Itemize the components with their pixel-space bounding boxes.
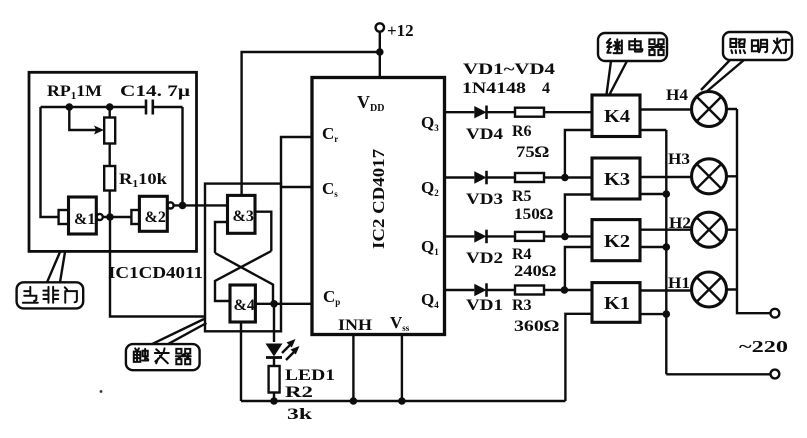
terminal mains upper (771, 309, 780, 318)
resistor R5 (515, 173, 544, 182)
relay K1 (592, 283, 640, 323)
svg-text:INH: INH (338, 317, 373, 334)
wire R4 to K2 (544, 235, 592, 237)
wire wiper branch (69, 107, 98, 130)
wire Q2 row (445, 176, 475, 178)
resistor R2 (269, 366, 280, 393)
node &2 output junction (179, 202, 187, 210)
char men (nand) (65, 287, 77, 302)
relay K2 (592, 220, 640, 261)
svg-text:H4: H4 (666, 87, 688, 104)
wire +12 to IC2 VDD (379, 52, 381, 78)
svg-text:&4: &4 (234, 297, 255, 314)
node pot top branch (106, 103, 114, 111)
svg-text:IC1CD4011: IC1CD4011 (108, 263, 203, 282)
svg-text:C14. 7μ: C14. 7μ (120, 83, 190, 100)
svg-text:R4: R4 (512, 246, 532, 263)
char fei (nand) (43, 287, 58, 303)
wire &1 output to &2 input (103, 216, 132, 218)
callout relay label box (598, 33, 667, 61)
node bus K1 junction (663, 310, 671, 318)
wire junction down to LED (273, 304, 275, 342)
node R2 rail junction (270, 397, 278, 405)
svg-text:3k: 3k (287, 406, 312, 423)
nand gate &2 input stub (131, 210, 139, 224)
stray printing dot (100, 390, 103, 393)
char fa (trigger) (155, 348, 169, 363)
nand gate &2 (139, 196, 167, 231)
svg-text:&1: &1 (74, 211, 95, 228)
char zhao (lamp) (730, 39, 745, 53)
svg-text:1N4148: 1N4148 (462, 80, 526, 97)
node bus K3 junction (663, 190, 671, 198)
char yu (nand) (23, 287, 38, 303)
wire pot bottom to R1 (108, 144, 110, 167)
svg-text:IC2 CD4017: IC2 CD4017 (369, 148, 388, 249)
svg-text:75Ω: 75Ω (516, 144, 549, 161)
wire feedback down to &2 output (181, 107, 183, 205)
wire oscillator top net (41, 106, 147, 108)
svg-text:H2: H2 (669, 215, 691, 232)
nand gate &1 input stub (59, 210, 69, 224)
node INH rail junction (350, 397, 358, 405)
nand gate &1 (69, 197, 97, 234)
wire Q3 row (445, 111, 475, 113)
svg-text:VD1~VD4: VD1~VD4 (463, 61, 555, 78)
wire bus to mains terminal lower (666, 373, 770, 375)
char qi (relay) (649, 39, 664, 55)
lamp bus stubs (727, 109, 738, 290)
wire &3 output right (255, 212, 271, 251)
svg-text:240Ω: 240Ω (514, 263, 556, 280)
wire K3 lower-left to row3 (565, 195, 592, 237)
wire INH to rail (352, 335, 354, 402)
wire R2 to rail (273, 393, 275, 402)
nand gate &3 (228, 195, 256, 233)
wire R6 to K4 (544, 111, 592, 113)
char dian (relay) (629, 39, 642, 52)
lamp H4 (692, 92, 727, 127)
ground rail (241, 400, 565, 402)
IC1 oscillator outer box (29, 72, 197, 251)
wire K1 lower-right to bus (640, 313, 666, 315)
wire &2 output to &3 (174, 204, 228, 206)
char ji (relay) (607, 39, 622, 53)
svg-text:+12: +12 (387, 21, 414, 40)
wire K4 lower-right to contact bus (640, 129, 666, 131)
resistor R6 (515, 108, 544, 117)
+12 supply terminal (376, 23, 384, 31)
wire Q1 row (445, 235, 475, 237)
wire K2 lower-left to row4 (565, 247, 592, 290)
terminal mains lower (771, 370, 780, 379)
wire +12 terminal to junction (379, 32, 381, 52)
callout nand label box (17, 282, 84, 308)
svg-text:R110k: R110k (119, 171, 167, 190)
svg-text:~220: ~220 (739, 337, 788, 356)
callout nand pointer (47, 252, 65, 282)
wire K1 to lamp H1 (640, 289, 692, 291)
svg-text:VD2: VD2 (466, 250, 503, 267)
svg-text:K1: K1 (604, 293, 630, 313)
nand gate &2 output bubble (167, 202, 173, 208)
char chu (trigger) (134, 348, 148, 361)
wire VD2 to R4 (487, 235, 516, 237)
lamp bus vertical (737, 109, 770, 313)
wire cross diagonal A (&4 out to &3 in) (215, 253, 273, 304)
svg-text:R3: R3 (512, 297, 532, 314)
node row4 junction (561, 286, 569, 294)
svg-text:&3: &3 (233, 208, 254, 225)
wire &4 bottom to ground rail (240, 322, 242, 401)
wiper arrowhead (94, 126, 104, 135)
relay K3 (592, 158, 640, 199)
LED1 cathode bar (266, 356, 282, 359)
wire VD3 to R5 (487, 176, 516, 178)
node pot wiper branch (66, 103, 74, 111)
wire K1 lower-left to rail (565, 314, 592, 401)
LED1 emission arrow 2 (286, 349, 297, 360)
svg-text:LED1: LED1 (285, 367, 335, 384)
wire R3 to K1 (544, 289, 592, 291)
wire K4 to lamp H4 (640, 108, 692, 110)
wire &3 left to cross-couple (215, 222, 228, 253)
wire gate node down to trigger (110, 217, 206, 317)
resistor R3 (515, 286, 544, 295)
nand gate &1 output bubble (97, 214, 103, 220)
wire Q4 row (445, 289, 475, 291)
wire VD4 to R6 (487, 111, 516, 113)
callout lamp pointer (701, 60, 744, 93)
svg-text:K2: K2 (604, 231, 630, 251)
LED1 emission arrow 1 (282, 342, 293, 353)
contact bus vertical (665, 130, 667, 374)
LED1 diode triangle (266, 344, 283, 357)
svg-text:H3: H3 (668, 151, 690, 168)
diode VD3 (474, 171, 486, 183)
wire pot top stub (108, 107, 110, 118)
char ming (lamp) (752, 40, 767, 52)
svg-text:VD4: VD4 (466, 126, 503, 143)
node bus K2 junction (663, 243, 671, 251)
wire K4 lower-left to row2 (565, 130, 592, 178)
wire +12 rail to gate &3 top (242, 52, 380, 195)
svg-text:4: 4 (542, 80, 550, 97)
svg-text:H1: H1 (668, 275, 690, 292)
relay K4 (592, 95, 640, 137)
callout trigger label box (126, 344, 200, 370)
node row3 junction (561, 233, 569, 241)
callout trigger pointer (152, 319, 207, 344)
wire LED to R2 (273, 358, 275, 367)
callout relay pointer (607, 61, 628, 95)
wire Cr pin loop to Cs (281, 137, 312, 187)
wire VD1 to R3 (487, 289, 516, 291)
svg-text:360Ω: 360Ω (514, 318, 559, 335)
wire left feedback loop (41, 107, 59, 217)
capacitor C1 (146, 100, 153, 115)
op IC2 CD4017 box (312, 78, 445, 335)
node +12 junction (376, 48, 384, 56)
svg-text:R6: R6 (512, 123, 532, 140)
wire K2 lower-right to bus (640, 246, 666, 248)
lamp H1 (692, 272, 727, 307)
svg-text:150Ω: 150Ω (514, 206, 553, 223)
lamp H3 (692, 159, 727, 194)
nand gate &4 (230, 285, 255, 322)
wire K3 lower-right to bus (640, 193, 666, 195)
wire K3 to lamp H3 (640, 176, 692, 178)
resistor R4 (515, 232, 544, 241)
lamp H2 (692, 212, 727, 247)
node Vss rail junction (398, 397, 406, 405)
node R1 junction (106, 213, 114, 221)
svg-text:&2: &2 (145, 209, 166, 226)
node &4 output junction (270, 300, 278, 308)
diode VD4 (474, 106, 486, 118)
svg-text:VD1: VD1 (466, 297, 503, 314)
char deng (lamp) (773, 38, 790, 53)
wire cross diagonal B (&3 out to &4 in) (215, 251, 271, 301)
svg-text:K4: K4 (604, 106, 630, 126)
svg-text:K3: K3 (604, 169, 630, 189)
diode VD2 (474, 230, 486, 242)
wire K2 to lamp H2 (640, 228, 692, 230)
node row2 junction (561, 174, 569, 182)
wire R1 bottom to gate node (108, 191, 110, 218)
wire R5 to K3 (544, 176, 592, 178)
callout lamp label box (723, 32, 792, 60)
potentiometer RP1 (104, 118, 115, 144)
svg-text:R2: R2 (285, 384, 313, 401)
svg-text:VD3: VD3 (466, 191, 503, 208)
diode VD1 (474, 284, 486, 296)
trigger annotation box (205, 184, 281, 332)
wire Vss to rail (401, 335, 403, 402)
char qi (trigger) (176, 349, 191, 364)
svg-text:R5: R5 (512, 188, 532, 205)
wire capacitor to feedback corner (153, 106, 183, 108)
wire &4 output to IC2 CP (255, 303, 312, 305)
resistor R1 (104, 166, 115, 191)
